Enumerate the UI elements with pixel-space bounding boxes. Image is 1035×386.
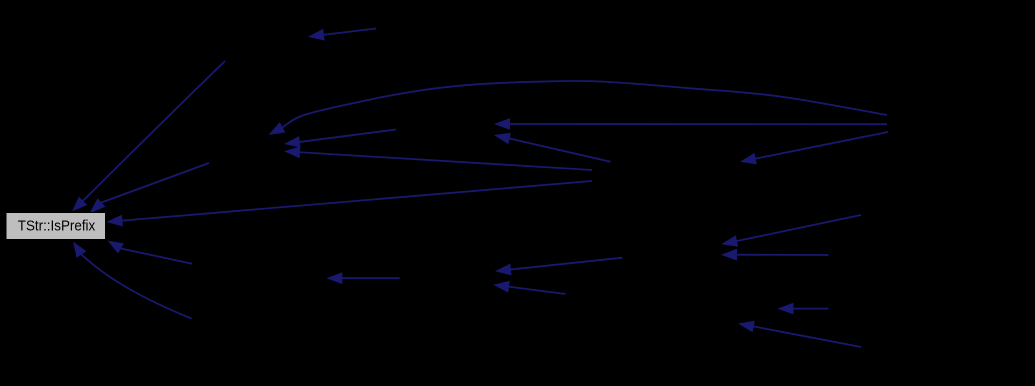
svg-text:TStr::IsPrefix: TStr::IsPrefix <box>18 218 96 235</box>
